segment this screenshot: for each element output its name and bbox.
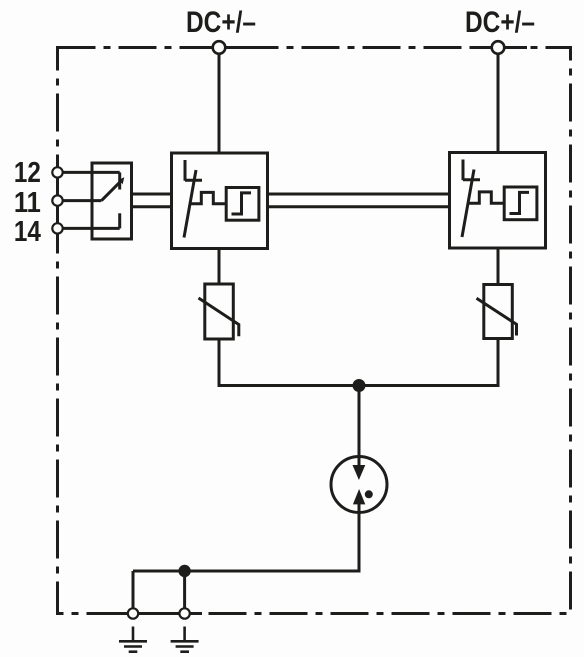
svg-text:DC+/–: DC+/– — [186, 6, 256, 39]
wire: left border solid segment at terminals 12/11/14 — [56, 158, 59, 242]
wire: bottom border solid segment at earth terminals — [118, 612, 202, 615]
terminal: right DC+/- — [492, 41, 505, 54]
device enclosure boundary (dash-dot frame) — [58, 48, 571, 614]
wire: centre node down into isolating spark gap — [358, 386, 361, 467]
wire: top border solid segment under right DC terminal — [471, 46, 527, 49]
varistor, right — [477, 285, 517, 339]
wire: terminal 14 to changeover contact — [58, 227, 120, 230]
wire: top border solid segment under left DC terminal — [193, 46, 258, 49]
terminal: earth, left — [128, 608, 138, 618]
terminal: 14 — [52, 223, 62, 233]
wire: right varistor down and across to centre node — [359, 339, 498, 386]
wire: double line, contact box to left protection block (upper) — [132, 193, 172, 196]
svg-text:14: 14 — [14, 216, 41, 248]
wire: left earth branch down to terminal — [132, 571, 135, 614]
wire: right earth branch down to terminal — [183, 571, 186, 614]
wire: double line, left block to right block (upper) — [268, 193, 450, 196]
spark gap with trigger circuit, right block — [450, 153, 546, 249]
wire: terminal 12 to changeover contact — [58, 171, 120, 174]
wire: left varistor down and across to centre node — [219, 339, 359, 386]
node: junction on earth bus above second earth terminal — [178, 565, 190, 577]
wire: double line, contact box to left protection block (lower) — [132, 205, 172, 208]
wire: terminal 11 to changeover contact — [58, 199, 102, 202]
isolating spark gap to earth (circle with facing arrows) — [331, 457, 387, 513]
wire: right block to right varistor — [497, 248, 500, 285]
ground symbol, right — [171, 627, 199, 652]
node: junction of varistor branches and spark gap branch — [353, 379, 366, 392]
wire: isolating spark gap down then across to earth terminals — [133, 503, 359, 571]
terminal: 12 — [52, 167, 62, 177]
svg-text:DC+/–: DC+/– — [465, 6, 535, 39]
ground symbol, left — [119, 627, 147, 652]
varistor, left — [199, 284, 239, 339]
wire: right DC+/- terminal down to right protection block — [497, 48, 500, 153]
terminal: 11 — [52, 195, 62, 205]
terminal: earth, right — [179, 608, 189, 618]
svg-text:12: 12 — [14, 157, 41, 189]
remote signalling changeover contact (terminals 12/11/14) — [92, 163, 132, 239]
wire: left block to left varistor — [218, 249, 221, 285]
spark gap with trigger circuit, left block — [172, 153, 268, 249]
wire: double line, left block to right block (lower) — [268, 205, 450, 208]
svg-text:11: 11 — [14, 187, 41, 219]
terminal: left DC+/- — [213, 41, 226, 54]
wire: left DC+/- terminal down to left protection block — [218, 48, 221, 154]
